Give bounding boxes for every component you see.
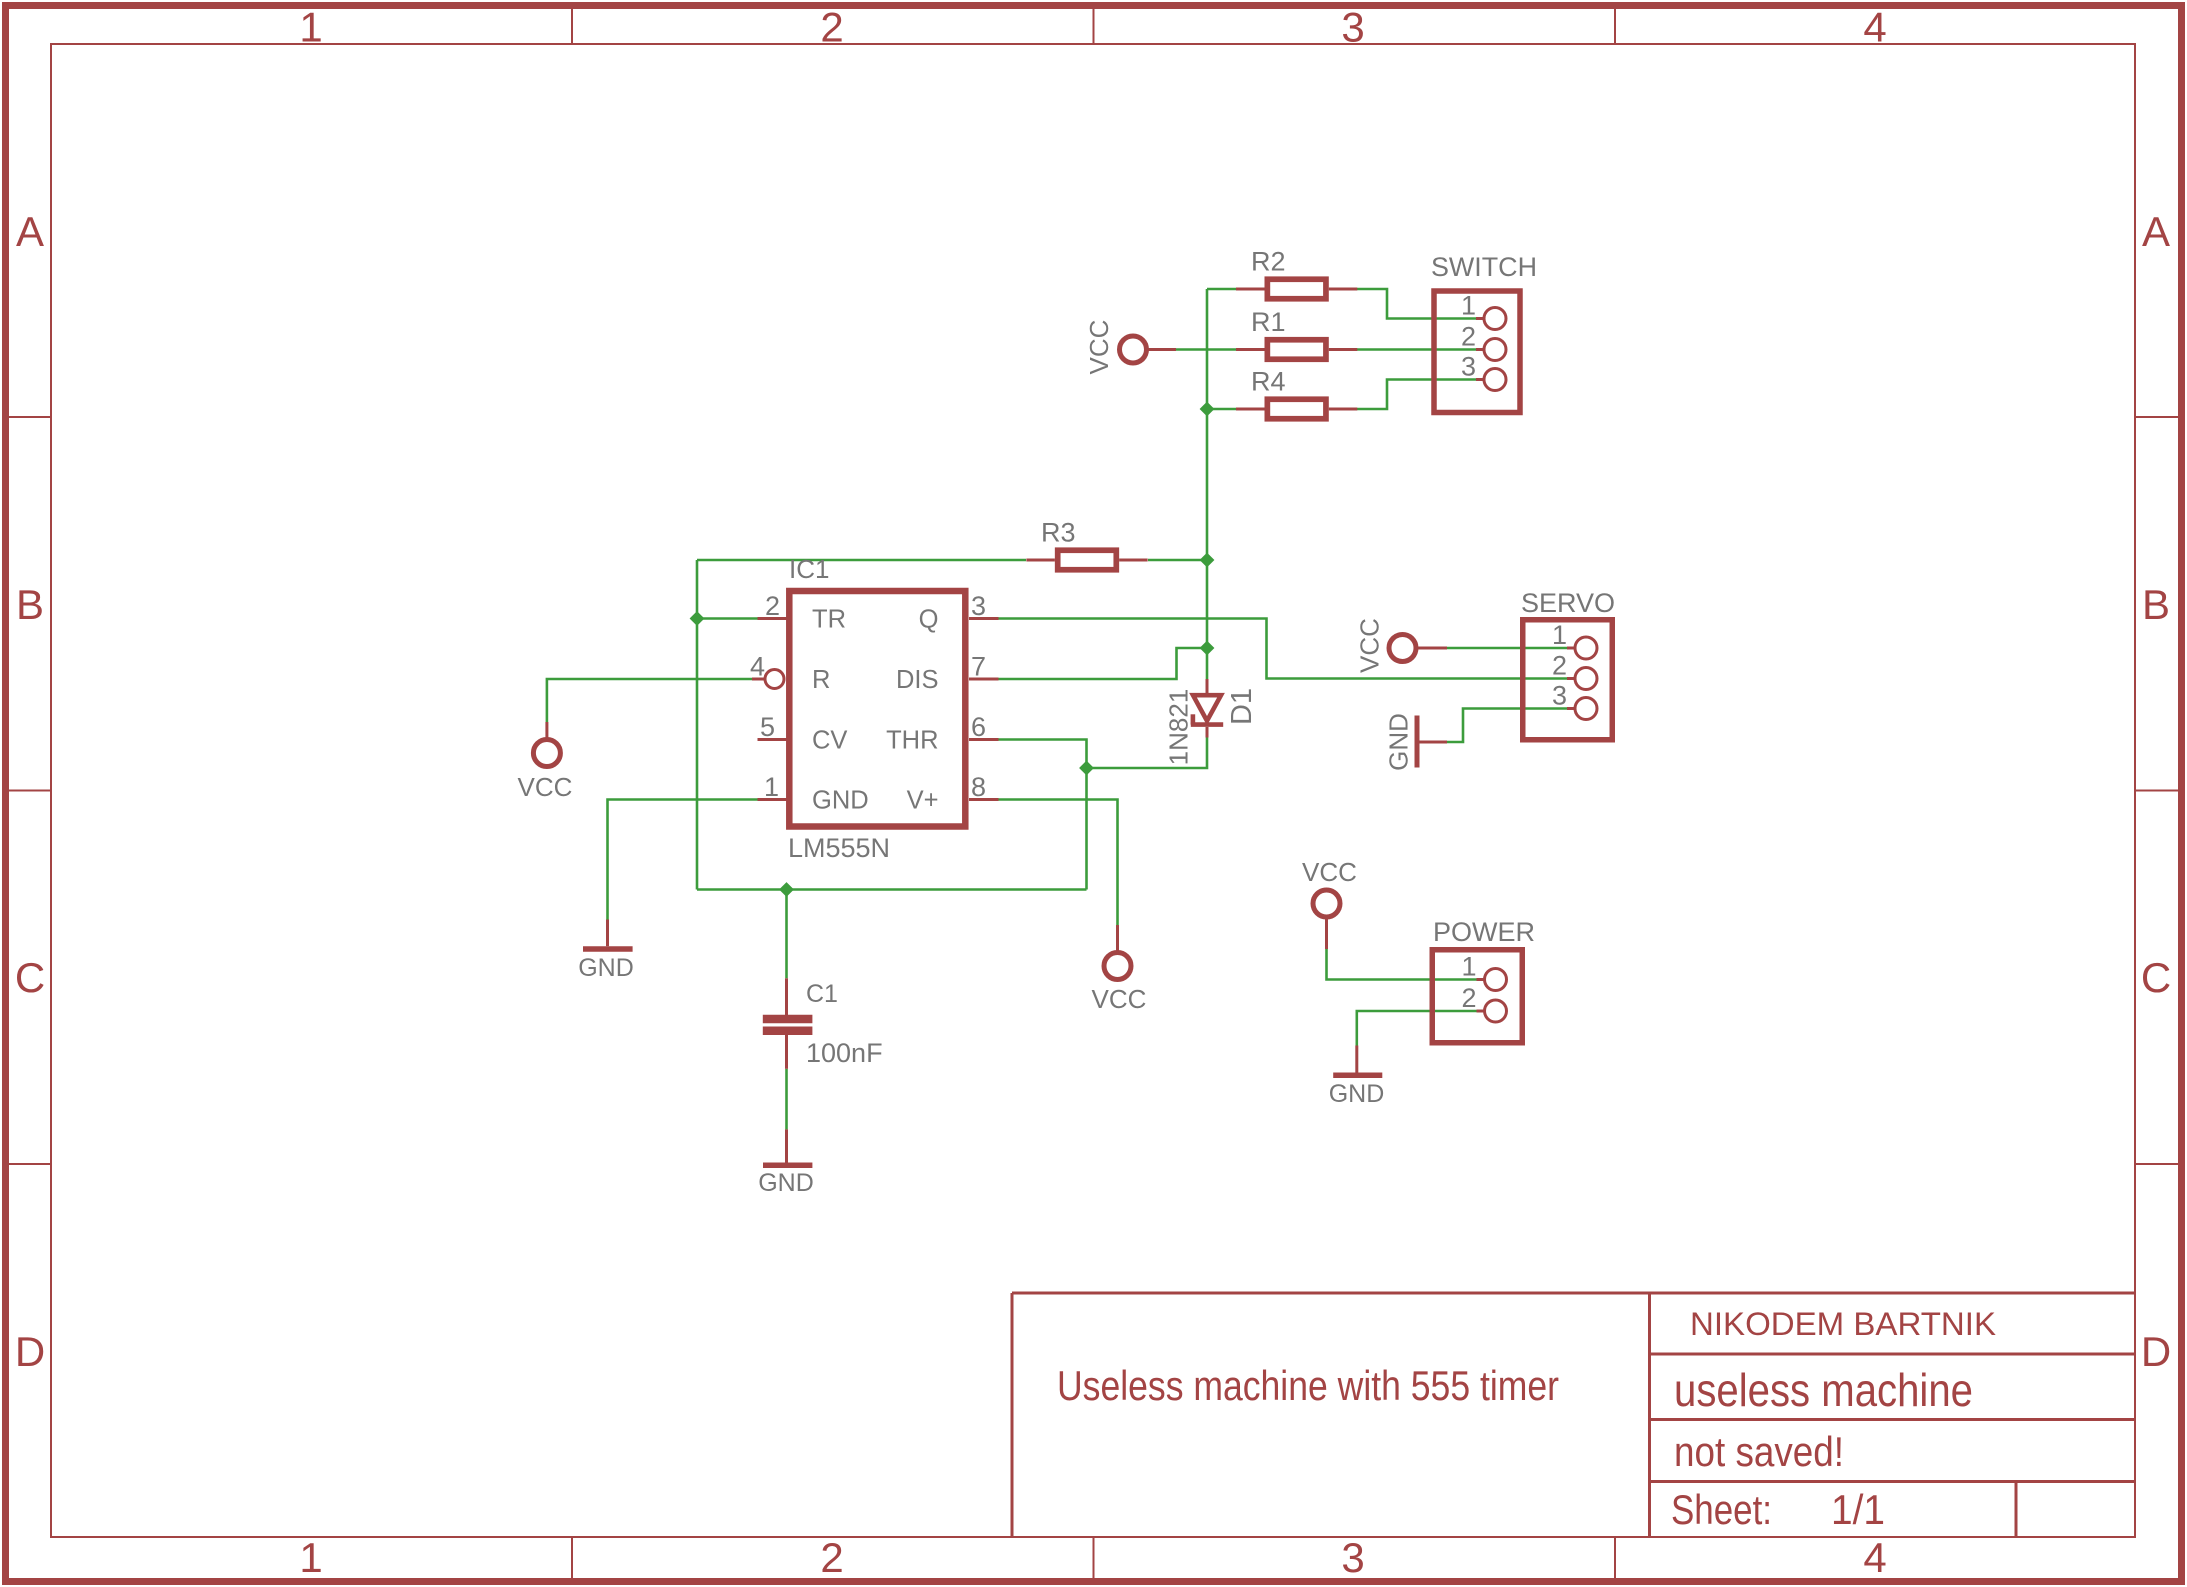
connector SERVO pins (1567, 637, 1597, 720)
svg-text:GND: GND (578, 954, 634, 982)
svg-text:GND: GND (1329, 1080, 1385, 1108)
svg-text:GND: GND (812, 787, 869, 815)
svg-text:Sheet:: Sheet: (1671, 1486, 1772, 1533)
svg-text:4: 4 (1863, 4, 1886, 51)
connector SWITCH pins (1476, 308, 1506, 391)
label IC1 (789, 554, 829, 584)
wire R3 right to VCC column (1148, 559, 1207, 562)
wire DIS to diode junction (999, 648, 1208, 679)
svg-text:1: 1 (764, 772, 779, 802)
svg-text:1/1: 1/1 (1831, 1486, 1885, 1533)
diode D1 1N821 (1191, 679, 1223, 738)
frame row labels left (15, 208, 45, 1375)
wire THR-junction riser (1085, 768, 1088, 890)
pin 8 V+ stub (969, 798, 999, 801)
svg-text:5: 5 (760, 712, 775, 742)
wire R4 left connect (1207, 408, 1236, 411)
wire diode cathode to junction (1087, 737, 1208, 768)
pin name DIS (896, 666, 939, 694)
supply VCC (pin4) (533, 722, 560, 767)
pin 5 CV stub (758, 738, 788, 741)
resistor R1 (1236, 340, 1357, 360)
svg-text:D1: D1 (1226, 688, 1258, 725)
svg-text:CV: CV (812, 727, 847, 755)
pin name V+ (907, 787, 939, 815)
ground GND (C1) (763, 1129, 812, 1165)
connector SWITCH pin numbers (1461, 291, 1476, 382)
svg-text:3: 3 (1341, 4, 1364, 51)
pin name R (812, 666, 830, 694)
svg-text:4: 4 (1863, 1534, 1886, 1581)
ground GND (power) (1333, 1046, 1382, 1076)
svg-text:D: D (2141, 1328, 2171, 1375)
frame column labels bottom (299, 1534, 1886, 1581)
svg-text:LM555N: LM555N (788, 833, 890, 863)
svg-text:TR: TR (812, 606, 846, 634)
wire V+ pin8 to VCC (999, 800, 1118, 926)
wire GND pin1 run (608, 800, 759, 920)
label GND (C1) (758, 1169, 814, 1197)
svg-text:R2: R2 (1251, 247, 1286, 277)
svg-text:3: 3 (1341, 1534, 1364, 1581)
junction TR net (690, 611, 705, 626)
ground GND (pin1) (583, 920, 633, 950)
svg-text:VCC: VCC (1302, 857, 1357, 887)
wire C1 top drop (785, 890, 788, 979)
junction R3/VCC (1200, 553, 1215, 568)
wire R pin4 to VCC (547, 679, 752, 722)
frame top column ticks (572, 9, 1615, 44)
svg-text:B: B (16, 581, 44, 628)
svg-text:VCC: VCC (1092, 984, 1147, 1014)
svg-text:4: 4 (750, 652, 765, 682)
svg-text:D: D (15, 1328, 45, 1375)
svg-text:VCC: VCC (518, 772, 573, 802)
wire VCC main vertical (1206, 289, 1209, 648)
pin 6 THR stub (969, 738, 999, 741)
svg-text:1: 1 (1552, 620, 1567, 650)
ground GND (servo) rotated (1417, 716, 1447, 768)
pin 4 R stub with bubble (752, 670, 784, 689)
svg-text:2: 2 (1461, 983, 1476, 1013)
svg-text:SERVO: SERVO (1521, 588, 1615, 618)
title text description (1057, 1362, 1559, 1409)
frame column labels top (299, 4, 1886, 51)
svg-text:8: 8 (971, 772, 986, 802)
svg-text:GND: GND (758, 1169, 814, 1197)
wire diode anode connect (1206, 648, 1209, 679)
label 100nF (806, 1038, 883, 1068)
wire THR to junction (999, 740, 1087, 769)
svg-text:POWER: POWER (1433, 917, 1535, 947)
svg-text:C: C (2141, 954, 2171, 1001)
svg-text:1: 1 (299, 1534, 322, 1581)
wire bottom horizontal net (697, 888, 1087, 891)
svg-text:THR: THR (886, 727, 938, 755)
svg-text:2: 2 (820, 1534, 843, 1581)
label VCC (pin4) (518, 772, 573, 802)
wire servo GND to pin3 (1447, 709, 1567, 743)
wire R3 left horizontal (697, 559, 1026, 562)
svg-text:SWITCH: SWITCH (1431, 252, 1537, 282)
wire servo VCC to pin1 (1447, 647, 1567, 650)
connector POWER pins (1477, 969, 1507, 1023)
svg-text:C: C (15, 954, 45, 1001)
label 1N821 (1163, 689, 1193, 766)
wire C1 bottom to GND (785, 1069, 788, 1130)
label VCC (pin8) (1092, 984, 1147, 1014)
svg-text:6: 6 (971, 712, 986, 742)
label D1 (1226, 688, 1258, 725)
svg-text:NIKODEM BARTNIK: NIKODEM BARTNIK (1690, 1306, 1996, 1342)
svg-text:2: 2 (765, 591, 780, 621)
label SWITCH (1431, 252, 1537, 282)
svg-text:100nF: 100nF (806, 1038, 883, 1068)
pin name CV (812, 727, 847, 755)
op-amp/timer IC1 body (789, 591, 965, 827)
label R1 (1251, 307, 1286, 337)
pin number 7 (971, 652, 986, 682)
connector SERVO pin numbers (1552, 620, 1567, 711)
label GND (power) (1329, 1080, 1385, 1108)
capacitor C1 (763, 978, 813, 1069)
connector SERVO body (1523, 620, 1613, 740)
pin number 4 (750, 652, 765, 682)
supply VCC (servo) (1389, 635, 1447, 662)
svg-text:R: R (812, 666, 830, 694)
svg-text:2: 2 (1461, 322, 1476, 352)
label SERVO (1521, 588, 1615, 618)
pin 2 TR stub (758, 617, 788, 620)
supply VCC (R1 feed) (1120, 336, 1177, 363)
label POWER (1433, 917, 1535, 947)
svg-text:R1: R1 (1251, 307, 1286, 337)
pin name TR (812, 606, 846, 634)
svg-text:IC1: IC1 (789, 554, 829, 584)
svg-text:3: 3 (971, 591, 986, 621)
connector SWITCH body (1434, 291, 1520, 413)
svg-text:B: B (2142, 581, 2170, 628)
svg-text:A: A (16, 208, 44, 255)
pin name THR (886, 727, 938, 755)
pin number 1 (764, 772, 779, 802)
wire TR pin stub connect (697, 617, 758, 620)
resistor R3 (1026, 550, 1147, 570)
frame row labels right (2141, 208, 2171, 1375)
resistor R4 (1236, 399, 1357, 419)
label VCC rotated (servo) (1354, 618, 1384, 673)
label R4 (1251, 367, 1286, 397)
resistor R2 (1236, 279, 1357, 299)
pin number 3 (971, 591, 986, 621)
svg-text:V+: V+ (907, 787, 939, 815)
supply VCC (pin8) (1104, 925, 1131, 980)
label VCC rotated (R1 feed) (1084, 320, 1114, 375)
pin name Q (919, 606, 939, 634)
label LM555N (788, 833, 890, 863)
svg-text:A: A (2142, 208, 2170, 255)
svg-text:1N821: 1N821 (1163, 689, 1193, 766)
svg-text:R3: R3 (1041, 518, 1076, 548)
title text sheet (1671, 1486, 1885, 1533)
svg-text:DIS: DIS (896, 666, 939, 694)
label GND (pin1) (578, 954, 634, 982)
svg-text:useless machine: useless machine (1674, 1364, 1973, 1416)
wire R2 to SWITCH pin1 (1356, 289, 1477, 319)
pin name GND (812, 787, 869, 815)
svg-text:1: 1 (1461, 952, 1476, 982)
svg-text:2: 2 (1552, 651, 1567, 681)
title text author (1690, 1306, 1996, 1342)
label C1 (806, 980, 838, 1008)
junction C1 net (779, 882, 794, 897)
wire power pin2 to GND (1357, 1011, 1477, 1046)
junction R4/VCC (1200, 402, 1215, 417)
svg-text:VCC: VCC (1354, 618, 1384, 673)
title text project name (1674, 1364, 1973, 1416)
wire net N$1 TR/THR/R3 vertical (696, 560, 699, 890)
wire R1 to SWITCH pin2 (1356, 348, 1477, 351)
svg-text:Q: Q (919, 606, 939, 634)
svg-text:GND: GND (1383, 713, 1413, 771)
pin number 8 (971, 772, 986, 802)
label R3 (1041, 518, 1076, 548)
frame left row ticks (9, 417, 51, 1164)
svg-text:VCC: VCC (1084, 320, 1114, 375)
svg-text:R4: R4 (1251, 367, 1286, 397)
title block lines (1012, 1293, 2135, 1537)
pin 1 GND stub (758, 798, 788, 801)
label GND rotated (servo) (1383, 713, 1413, 771)
pin 7 DIS stub (969, 678, 999, 681)
svg-text:not saved!: not saved! (1674, 1428, 1844, 1475)
frame bottom column ticks (572, 1537, 1615, 1578)
frame right row ticks (2135, 417, 2178, 1164)
wire power VCC to pin1 (1327, 949, 1477, 980)
label R2 (1251, 247, 1286, 277)
wire R4 to SWITCH pin3 (1356, 380, 1477, 410)
svg-text:C1: C1 (806, 980, 838, 1008)
svg-text:1: 1 (299, 4, 322, 51)
junction DIS/diode (1200, 641, 1215, 656)
svg-text:2: 2 (820, 4, 843, 51)
svg-text:3: 3 (1461, 352, 1476, 382)
label VCC (power) (1302, 857, 1357, 887)
wire Q to SERVO pin2 (999, 619, 1568, 679)
pin number 2 (765, 591, 780, 621)
wire R2 left connect (1207, 288, 1236, 291)
junction THR/diode (1079, 761, 1094, 776)
connector POWER pin numbers (1461, 952, 1476, 1014)
svg-text:3: 3 (1552, 681, 1567, 711)
connector POWER body (1432, 950, 1522, 1043)
svg-text:1: 1 (1461, 291, 1476, 321)
svg-text:7: 7 (971, 652, 986, 682)
title text not saved (1674, 1428, 1844, 1475)
supply VCC (power) (1313, 890, 1340, 949)
svg-text:Useless machine with 555 timer: Useless machine with 555 timer (1057, 1362, 1559, 1409)
pin number 6 (971, 712, 986, 742)
pin number 5 (760, 712, 775, 742)
wire VCC to R1 row (1176, 348, 1236, 351)
pin 3 Q stub (969, 617, 999, 620)
